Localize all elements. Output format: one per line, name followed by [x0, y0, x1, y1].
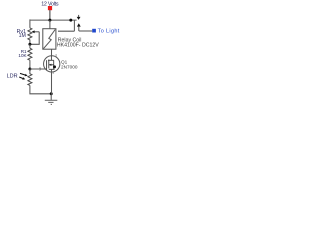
Q1 internal junction — [53, 65, 56, 68]
svg-text:g: g — [39, 66, 41, 70]
svg-text:2N7000: 2N7000 — [61, 65, 78, 70]
wire rail to relay coil top pin — [49, 20, 51, 29]
relay contact NC arrow — [78, 15, 80, 17]
ground symbol — [45, 99, 58, 101]
Q1 drain vertical — [50, 56, 52, 61]
junction 12V-rail — [48, 19, 51, 22]
wire ground drop — [50, 94, 52, 100]
wire relay coil bottom pin to Q1 drain — [51, 49, 53, 56]
Q1 middle stub with arrow — [49, 64, 54, 66]
svg-text:10K: 10K — [18, 53, 27, 58]
svg-text:LDR: LDR — [7, 74, 18, 80]
wire LDR to bottom corner — [30, 85, 51, 93]
wire top rail — [30, 19, 77, 21]
photoresistor LDR body — [28, 69, 32, 85]
relay coil actuator symbol — [43, 30, 55, 49]
resistor R1 body — [28, 48, 32, 60]
junction source-ground — [50, 92, 53, 95]
svg-text:HK4100F- DC12V: HK4100F- DC12V — [57, 42, 99, 48]
wire 12V terminal to rail — [49, 10, 51, 20]
LDR light arrow 2 — [19, 77, 23, 79]
wire contact common drop — [73, 20, 75, 31]
svg-text:s: s — [52, 71, 54, 75]
svg-text:1M: 1M — [19, 33, 26, 39]
wire left rail drop — [29, 19, 31, 28]
junction gate node — [28, 68, 31, 71]
wire RV1 to R1 — [29, 44, 31, 48]
Q1 source stub — [49, 68, 55, 70]
Q1 drain stub — [48, 59, 54, 61]
junction rail-contact — [69, 19, 72, 22]
potentiometer RV1 wiper arrow — [33, 31, 39, 33]
Q1 channel bar — [48, 60, 50, 69]
relay coil K1 box — [43, 29, 56, 50]
LDR light arrow 1 — [20, 73, 25, 75]
wire Q1 source down — [51, 69, 53, 94]
wire gate node to Q1 gate — [30, 68, 47, 70]
wire contact to light terminal — [79, 30, 92, 32]
node 12V terminal square — [48, 6, 52, 10]
transistor Q1 body circle — [44, 56, 60, 72]
wire RV1 wiper loop — [30, 32, 39, 45]
relay contact NO arrow — [77, 23, 81, 26]
potentiometer RV1 body — [28, 28, 32, 44]
svg-text:d: d — [55, 54, 57, 58]
junction RV1 bottom — [28, 43, 31, 46]
wire R1 to gate node — [29, 60, 31, 69]
Q1 gate bar — [46, 60, 48, 70]
node To Light terminal square — [92, 29, 96, 33]
svg-text:To Light: To Light — [98, 28, 120, 34]
wire relay linkage horizontal — [58, 30, 74, 32]
Q1 right bus — [53, 60, 55, 69]
